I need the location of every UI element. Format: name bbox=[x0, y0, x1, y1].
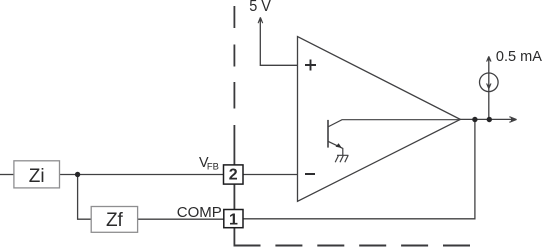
svg-text:0.5 mA: 0.5 mA bbox=[496, 48, 542, 65]
svg-text:1: 1 bbox=[229, 211, 238, 228]
svg-text:COMP: COMP bbox=[177, 204, 222, 221]
svg-text:Zf: Zf bbox=[106, 210, 124, 231]
svg-text:2: 2 bbox=[229, 167, 238, 184]
svg-text:5 V: 5 V bbox=[249, 0, 271, 15]
svg-text:Zi: Zi bbox=[29, 166, 45, 187]
svg-text:FB: FB bbox=[207, 160, 219, 171]
